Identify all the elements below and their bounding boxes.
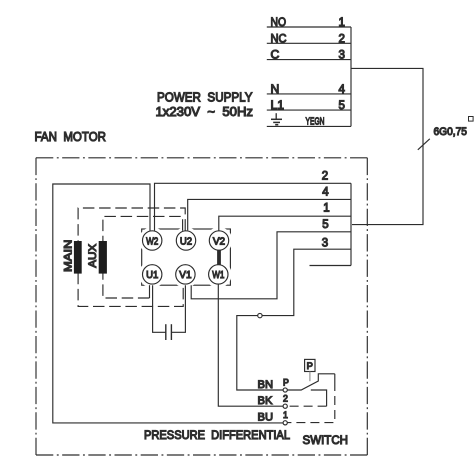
svg-text:AUX: AUX xyxy=(87,243,99,268)
svg-text:SWITCH: SWITCH xyxy=(303,433,349,447)
svg-text:1: 1 xyxy=(323,203,329,215)
svg-text:PRESSURE DIFFERENTIAL: PRESSURE DIFFERENTIAL xyxy=(144,428,290,442)
bundle stub wire xyxy=(310,265,352,267)
svg-text:BK: BK xyxy=(258,395,273,407)
svg-text:1x230V ~ 50Hz: 1x230V ~ 50Hz xyxy=(156,104,254,119)
terminal W1 xyxy=(209,265,228,284)
wire 4: U2 to bundle xyxy=(188,199,351,230)
terminal halo knockouts xyxy=(139,227,233,288)
svg-text:6G0,75: 6G0,75 xyxy=(434,126,468,138)
fan motor enclosure (dash-dot boundary) xyxy=(36,158,367,455)
svg-text:MAIN: MAIN xyxy=(62,240,74,272)
svg-text:U2: U2 xyxy=(180,236,192,247)
svg-text:YEGN: YEGN xyxy=(306,117,325,128)
AUX winding bar xyxy=(99,241,107,274)
capacitor C xyxy=(166,324,172,340)
svg-text:V1: V1 xyxy=(179,270,191,281)
motor terminal box xyxy=(142,229,231,285)
link bar V2-W1 xyxy=(217,250,221,265)
svg-text:5: 5 xyxy=(339,99,345,112)
svg-text:V2: V2 xyxy=(213,236,225,247)
pressure switch terminal BN (P) xyxy=(283,388,287,392)
wire 2: W2 to bundle xyxy=(155,183,352,231)
svg-text:C: C xyxy=(271,48,280,62)
terminal NO pin 1 xyxy=(271,15,345,29)
actuator stem xyxy=(309,372,311,382)
svg-text:2: 2 xyxy=(339,32,345,45)
switch lever from BN xyxy=(287,374,335,390)
wire U1 to capacitor xyxy=(153,285,166,332)
svg-text:3: 3 xyxy=(339,49,345,62)
wire W1 to pressure switch terminal 2 (BK) xyxy=(218,284,283,406)
pressure actuator box P xyxy=(305,359,315,371)
svg-text:BU: BU xyxy=(258,411,274,423)
svg-text:4: 4 xyxy=(322,187,329,199)
wire W2 to pressure switch terminal 1 (BU) xyxy=(53,184,283,423)
MAIN winding dashed loop xyxy=(78,208,185,306)
node connector on wire 3 xyxy=(258,313,262,317)
svg-text:P: P xyxy=(283,378,289,388)
svg-text:W2: W2 xyxy=(146,236,158,247)
MAIN winding bar xyxy=(74,241,82,274)
wire capacitor to V1 xyxy=(172,285,186,332)
svg-text:P: P xyxy=(307,360,313,371)
terminal V2 xyxy=(209,231,228,250)
terminal C pin 3 xyxy=(271,48,345,62)
terminal NC pin 2 xyxy=(271,31,345,45)
svg-text:N: N xyxy=(271,82,280,96)
wire 5: V1 to bundle xyxy=(191,232,351,299)
pressure switch terminal BK (2) xyxy=(283,404,287,408)
cable marker square xyxy=(469,117,474,122)
svg-text:2: 2 xyxy=(322,170,328,182)
svg-text:L1: L1 xyxy=(271,98,285,112)
cable bundle vertical xyxy=(350,183,352,265)
svg-text:NC: NC xyxy=(271,31,287,45)
switch throw to BU (dashed) xyxy=(287,382,334,423)
terminal U1 xyxy=(143,265,162,284)
svg-text:NO: NO xyxy=(271,15,287,29)
terminal V1 xyxy=(176,265,195,284)
wire: power supply cable to fan motor xyxy=(351,68,423,224)
terminal N pin 4 xyxy=(271,82,346,96)
switch contact for terminal 2 xyxy=(311,390,327,406)
svg-text:5: 5 xyxy=(322,219,328,231)
terminal L1 pin 5 xyxy=(271,98,345,112)
svg-text:1: 1 xyxy=(339,16,345,29)
svg-text:BN: BN xyxy=(258,379,274,391)
AUX winding dashed loop xyxy=(103,216,183,298)
terminal U2 xyxy=(176,231,195,250)
ground xyxy=(271,113,282,125)
power supply terminal block xyxy=(267,27,351,126)
svg-text:4: 4 xyxy=(339,83,346,96)
svg-text:POWER SUPPLY: POWER SUPPLY xyxy=(157,90,253,105)
terminal W2 xyxy=(143,231,162,250)
svg-text:U1: U1 xyxy=(146,270,158,281)
switch throw solid stub xyxy=(334,374,336,382)
wire 1: V2 to bundle xyxy=(219,216,351,231)
svg-text:W1: W1 xyxy=(212,270,224,281)
pressure switch terminal BU (1) xyxy=(283,421,287,425)
svg-text:1: 1 xyxy=(283,410,288,420)
svg-text:FAN MOTOR: FAN MOTOR xyxy=(35,129,107,144)
svg-text:2: 2 xyxy=(283,394,288,404)
dashed link to BK xyxy=(287,405,326,407)
wire U1 to AUX winding xyxy=(149,285,151,298)
cable tick mark xyxy=(418,139,430,150)
wire 3: bundle to pressure switch terminal P (BN) xyxy=(237,249,351,390)
svg-text:3: 3 xyxy=(322,238,328,250)
